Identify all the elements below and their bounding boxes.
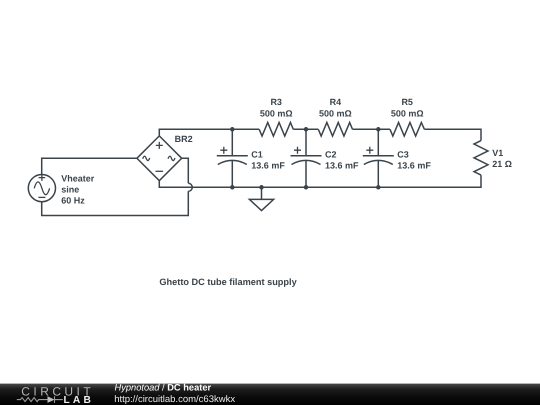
capacitor C1 bottom plate arc — [218, 160, 247, 164]
wire C3 bottom lead — [377, 161, 379, 188]
capacitor C1 top plate — [217, 155, 248, 157]
svg-text:13.6 mF: 13.6 mF — [251, 161, 285, 171]
capacitor C2 top plate — [291, 155, 322, 157]
logo resistor squiggle — [17, 398, 48, 402]
svg-text:21 Ω: 21 Ω — [492, 159, 512, 169]
wire bottom rail — [159, 175, 481, 187]
wire source bottom return — [42, 191, 189, 215]
wire C3 top lead — [377, 129, 379, 155]
svg-text:sine: sine — [61, 185, 79, 195]
svg-text:C2: C2 — [325, 149, 337, 159]
bridge rectifier BR2 diamond — [137, 136, 182, 181]
svg-text:C3: C3 — [397, 149, 409, 159]
wire bridge right vertex down — [182, 158, 189, 183]
ground symbol — [249, 187, 273, 210]
node dot rail C2 — [304, 127, 309, 132]
wire hop over bottom rail — [188, 183, 192, 191]
svg-text:Vheater: Vheater — [61, 174, 95, 184]
capacitor C3 bottom plate arc — [364, 160, 393, 164]
svg-text:http://circuitlab.com/c63kwkx: http://circuitlab.com/c63kwkx — [114, 394, 235, 405]
svg-text:LAB: LAB — [64, 395, 95, 405]
logo diode — [48, 396, 55, 403]
voltage source sine wave — [34, 182, 49, 195]
wire C1 bottom lead — [231, 161, 233, 188]
bridge ac tilde left — [143, 156, 150, 160]
wire rail R4 to R5 — [353, 128, 391, 130]
svg-text:V1: V1 — [492, 148, 503, 158]
resistor R3 zigzag — [259, 123, 293, 137]
svg-text:60 Hz: 60 Hz — [61, 196, 85, 206]
capacitor C2 bottom plate arc — [292, 160, 321, 164]
node dot bottom C1 — [230, 185, 235, 190]
svg-text:13.6 mF: 13.6 mF — [325, 161, 359, 171]
svg-text:R3: R3 — [270, 97, 282, 107]
svg-text:R4: R4 — [330, 97, 342, 107]
capacitor C2 plus — [294, 147, 301, 154]
svg-text:Ghetto DC tube filament supply: Ghetto DC tube filament supply — [159, 277, 297, 287]
footer bar — [0, 384, 540, 405]
capacitor C3 top plate — [363, 155, 394, 157]
wire rail R3 to R4 — [293, 128, 318, 130]
voltage source V circle — [28, 175, 55, 202]
wire C2 top lead — [305, 129, 307, 155]
resistor R5 zigzag — [390, 123, 424, 137]
capacitor C3 plus — [366, 147, 373, 154]
wire C2 bottom lead — [305, 161, 307, 188]
bridge ac tilde right — [168, 156, 175, 160]
bridge plus — [156, 142, 163, 149]
svg-text:BR2: BR2 — [175, 134, 193, 144]
node dot bottom C3 — [376, 185, 381, 190]
wire C1 top lead — [231, 129, 233, 155]
node dot rail C1 — [230, 127, 235, 132]
capacitor C1 plus — [220, 147, 227, 154]
node dot rail C3 — [376, 127, 381, 132]
svg-text:500 mΩ: 500 mΩ — [319, 109, 352, 119]
svg-text:R5: R5 — [401, 97, 413, 107]
voltage source minus — [38, 196, 45, 198]
node dot bottom C2 — [304, 185, 309, 190]
svg-text:C1: C1 — [251, 149, 263, 159]
resistor V1 zigzag vertical — [474, 141, 488, 176]
svg-text:500 mΩ: 500 mΩ — [260, 109, 293, 119]
svg-text:Hypnotoad / DC heater: Hypnotoad / DC heater — [115, 383, 212, 393]
wire rail R5 to V1 top — [424, 129, 481, 140]
bridge minus — [156, 170, 164, 172]
wire source top to bridge left — [42, 158, 137, 174]
resistor R4 zigzag — [318, 123, 352, 137]
svg-text:500 mΩ: 500 mΩ — [391, 109, 424, 119]
wire bridge top to rail — [159, 129, 259, 136]
svg-text:13.6 mF: 13.6 mF — [397, 161, 431, 171]
voltage source plus — [39, 174, 46, 181]
node dot bottom ground — [259, 185, 264, 190]
